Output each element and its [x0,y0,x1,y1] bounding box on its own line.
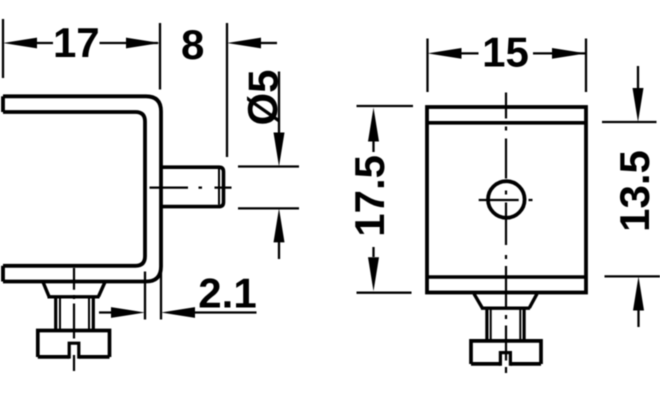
arrow dia5 down [274,133,285,167]
svg-text:2.1: 2.1 [198,270,256,317]
dim 17.5 line stubs [372,141,374,257]
bracket body (left view) outer contour [3,96,161,281]
screw R slot [500,353,510,366]
svg-text:8: 8 [181,21,204,68]
screw L shank outer lines [56,297,94,329]
svg-text:13.5: 13.5 [611,150,658,232]
hole horizontal centerline [479,199,533,201]
dim 2.1 extension lines [145,269,161,320]
dim dia5 arrow tails [278,72,280,260]
dim 13.5 extension lines [602,122,660,276]
screw R head bottom edges [471,362,541,366]
screw R trapezoid left side [474,294,482,308]
screw R shank inner lines [491,309,521,339]
arrow 17.5 down [368,257,379,291]
screw L trapezoid bottom [48,295,100,298]
arrow 13.5 down [633,88,644,122]
dim 8 right tail [261,42,277,44]
arrow 15 right [552,48,586,59]
dim 17 left extension line [2,19,4,78]
arrow 8 right [227,38,261,49]
pin outline [161,167,224,206]
dim dia5 extension lines [238,167,299,209]
arrow 2.1 right pointing left [161,307,195,318]
box bottom band line [427,275,586,279]
screw R shank outer lines [487,309,524,339]
screw L head [38,331,110,358]
bracket bottom arm left end cap [1,266,5,282]
screw R head [471,341,541,364]
screw R trapezoid bottom [481,307,530,310]
arrow dia5 up [274,208,285,242]
svg-text:15: 15 [482,28,529,75]
arrow 15 left [428,48,462,59]
arrow 17.5 up [368,108,379,142]
bracket body inner contour [3,112,145,266]
arrow 17 right / 8 left [126,38,160,49]
dim 2.1 tails [99,311,257,313]
screw L shank inner lines [60,297,89,329]
dim 17/8 shared extension line [159,23,161,90]
vertical centerline right view [505,93,507,374]
screw L head bottom edges [38,355,110,359]
box flange line [427,121,586,125]
screw R trapezoid right side [529,294,537,308]
screw L trapezoid right side [99,282,106,297]
box (right view) [427,107,586,293]
bracket top arm left end cap [1,96,5,112]
dim 15 extension lines [428,39,587,93]
arrow 2.1 left pointing right [111,307,145,318]
arrow 17 left [3,38,37,49]
dim 8 right extension line [226,23,228,157]
dim 17.5 extension lines [357,106,414,293]
screw L centerline [73,268,75,371]
svg-text:17: 17 [53,19,100,66]
dim 13.5 tails [637,66,640,327]
hole circle [488,181,525,218]
dim 17 line segments [37,42,159,44]
pin chamfer line [218,169,220,205]
dim 15 line segments [461,52,587,54]
screw L trapezoid left side [43,282,49,297]
screw L slot [69,343,79,358]
pin centerline [150,187,232,189]
arrow 13.5 up [633,276,644,310]
svg-text:17.5: 17.5 [346,155,393,237]
svg-text:Ø5: Ø5 [240,69,287,125]
